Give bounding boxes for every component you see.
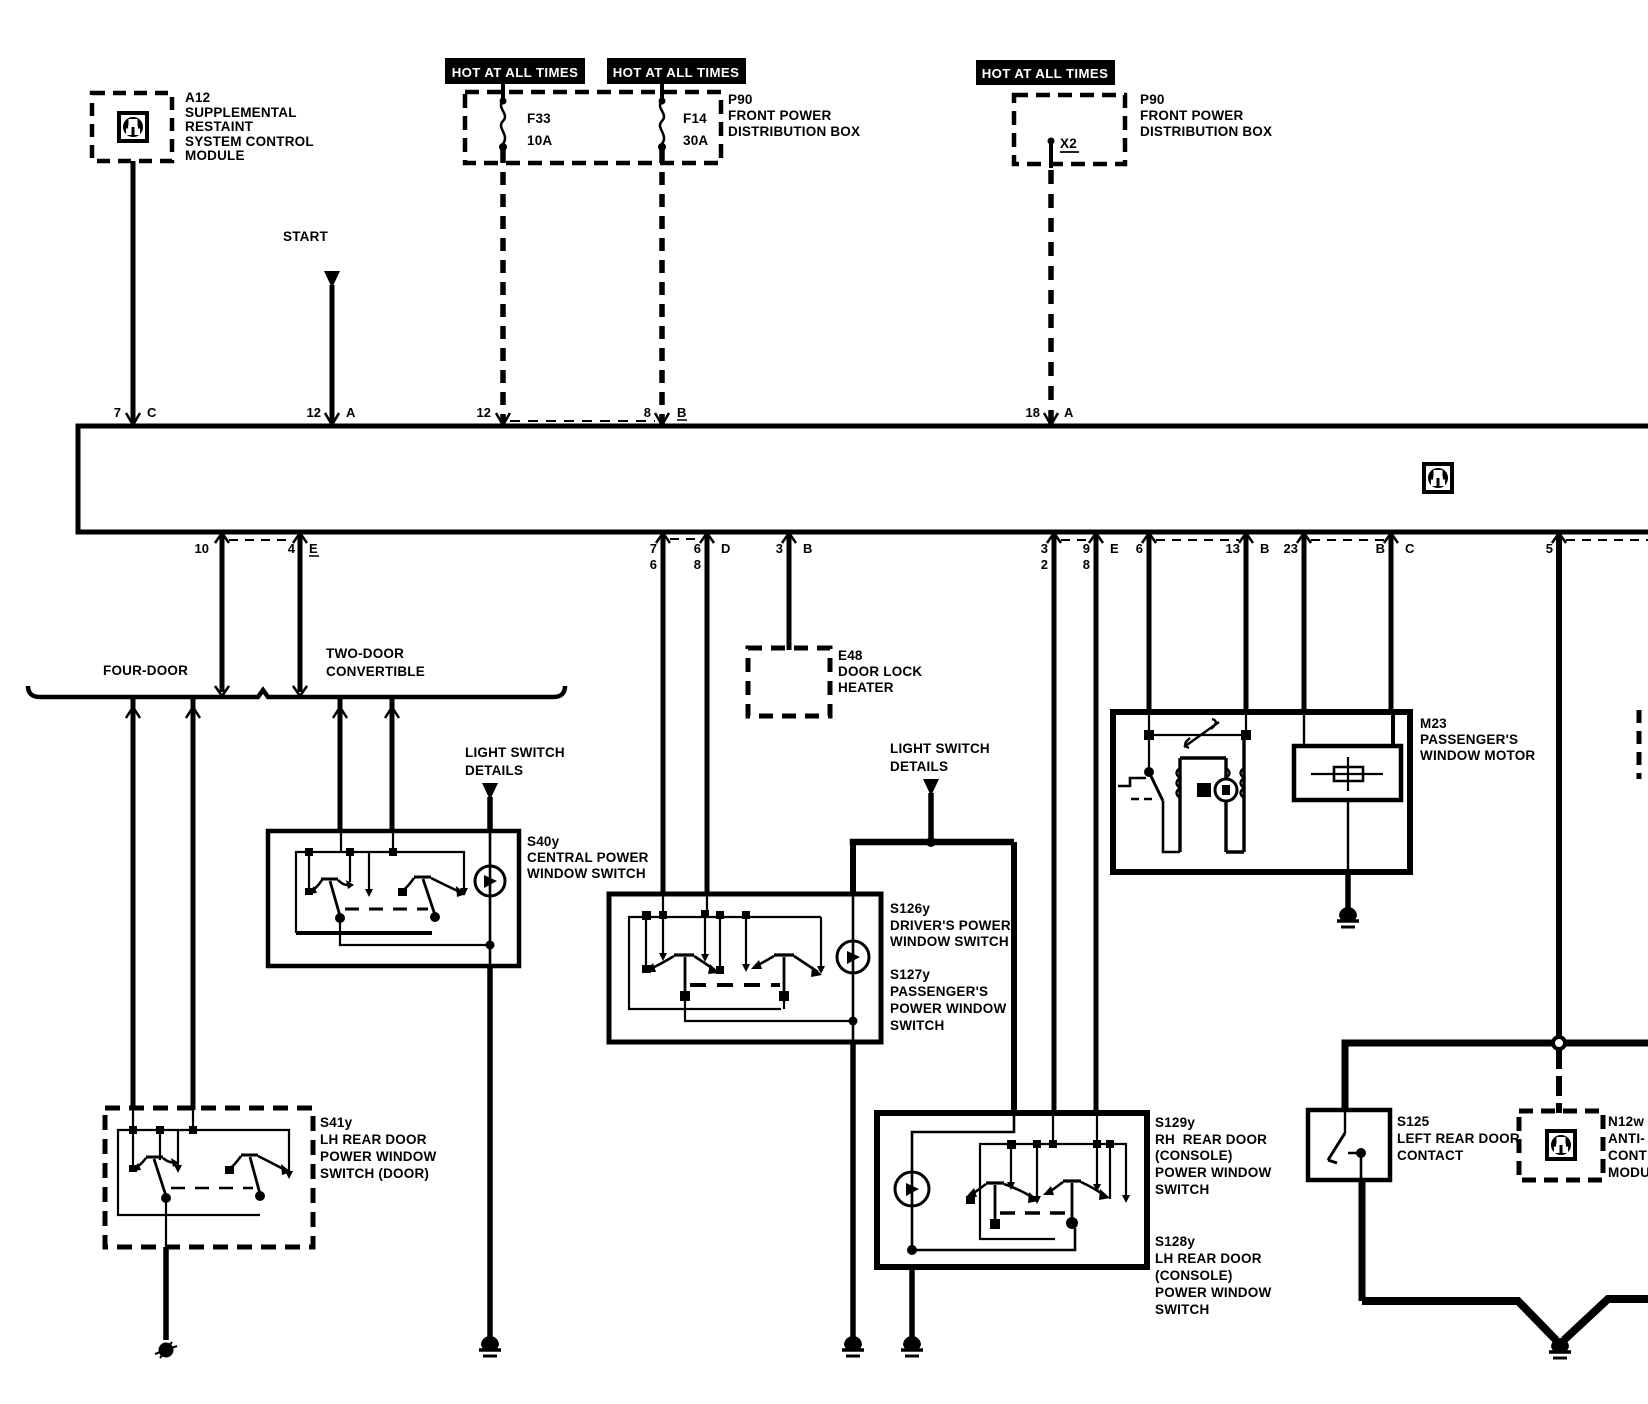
S40y junction dot bbox=[486, 941, 495, 950]
chevron pin 3/2 bbox=[1047, 533, 1061, 543]
junction dot on bar bbox=[926, 837, 936, 847]
light switch arrow middle bbox=[923, 779, 939, 796]
S40y rocker 2 arcs bbox=[402, 878, 460, 892]
wire brace to S41y right bbox=[191, 697, 196, 1110]
chevron pin 10 top bbox=[215, 533, 229, 543]
svg-text:18: 18 bbox=[1026, 405, 1040, 420]
splice run to ground right bbox=[1564, 1299, 1648, 1340]
svg-text:MODULE: MODULE bbox=[185, 148, 245, 163]
chevron bbox=[333, 707, 347, 718]
chevron pin 9/8 bbox=[1089, 533, 1103, 543]
wire light switch details to bar bbox=[928, 793, 934, 842]
svg-text:P90: P90 bbox=[728, 92, 753, 107]
A12 connector icon bbox=[119, 113, 147, 141]
wire M23 to ground bbox=[1345, 872, 1351, 908]
dashed link pins 7-6 bbox=[670, 538, 700, 540]
svg-text:F33: F33 bbox=[527, 111, 551, 126]
S41y exit stub bbox=[165, 1198, 167, 1247]
HOT AT ALL TIMES label 2 bbox=[607, 58, 746, 84]
M23 thermal breaker squiggle bbox=[1184, 719, 1219, 748]
dashed link pins 3/2-9/8 bbox=[1061, 539, 1089, 541]
wire brace to S40y right bbox=[390, 697, 395, 833]
svg-text:S129y: S129y bbox=[1155, 1115, 1195, 1130]
svg-text:ANTI-: ANTI- bbox=[1608, 1131, 1645, 1146]
svg-text:6: 6 bbox=[650, 557, 657, 572]
wire fuse F33 to bus pin 12 (dashed) bbox=[501, 84, 505, 99]
feed line to S125/N12w bbox=[1345, 1043, 1648, 1047]
fuse F14 30A bbox=[658, 98, 666, 152]
switch S40y box bbox=[268, 831, 519, 966]
S40y dashed coupler bbox=[345, 908, 428, 911]
svg-text:PASSENGER'S: PASSENGER'S bbox=[1420, 732, 1518, 747]
svg-text:POWER WINDOW: POWER WINDOW bbox=[320, 1149, 436, 1164]
S41y blade 2 dot bbox=[255, 1191, 265, 1201]
wire bus pin 10 to four-door brace bbox=[220, 532, 225, 692]
M23 field coil bumps left bbox=[1177, 768, 1181, 798]
svg-text:DISTRIBUTION BOX: DISTRIBUTION BOX bbox=[728, 124, 860, 139]
svg-text:A12: A12 bbox=[185, 90, 210, 105]
S126y lamp wire through bbox=[852, 895, 855, 1042]
wire bus pin 3 to E48 bbox=[787, 532, 792, 650]
door contact S125 box bbox=[1308, 1110, 1390, 1180]
F33 value label bbox=[527, 111, 552, 148]
S126y blade 2 to bottom bar bbox=[783, 1001, 785, 1009]
wire down to S125 bbox=[1342, 1043, 1349, 1112]
wire B label underlined bbox=[677, 405, 687, 420]
M23 top rail bbox=[1149, 712, 1246, 735]
chevron pin 13 bbox=[1239, 533, 1253, 543]
S126y label bbox=[890, 901, 1011, 949]
S129y rocker 1 arcs bbox=[971, 1184, 1034, 1199]
ground G (rear contact) bbox=[1549, 1338, 1571, 1358]
S129y inner contact frame bbox=[980, 1113, 1126, 1239]
svg-text:CONVERTIBLE: CONVERTIBLE bbox=[326, 664, 425, 679]
svg-text:LH REAR DOOR: LH REAR DOOR bbox=[320, 1132, 427, 1147]
chevron at bus entry pin 12 bbox=[325, 413, 339, 425]
S40y rocker 2 blade bbox=[423, 879, 435, 915]
chevron pin 4 top bbox=[293, 533, 307, 543]
svg-text:E: E bbox=[1110, 541, 1119, 556]
svg-text:DISTRIBUTION BOX: DISTRIBUTION BOX bbox=[1140, 124, 1272, 139]
S40y rocker 1 pivot bbox=[321, 878, 338, 881]
svg-text:CONT: CONT bbox=[1608, 1148, 1648, 1163]
svg-text:LIGHT SWITCH: LIGHT SWITCH bbox=[465, 745, 565, 760]
S40y lamp arrow bbox=[484, 875, 497, 888]
svg-text:30A: 30A bbox=[683, 133, 708, 148]
svg-text:DRIVER'S POWER: DRIVER'S POWER bbox=[890, 918, 1011, 933]
svg-text:10: 10 bbox=[195, 541, 209, 556]
svg-text:8: 8 bbox=[1083, 557, 1090, 572]
svg-text:B: B bbox=[803, 541, 812, 556]
S129y dashed coupler bbox=[1000, 1211, 1066, 1214]
pin 6/8 label bbox=[694, 541, 701, 572]
module A12 box bbox=[92, 93, 172, 161]
S126y blade 2 dot bbox=[779, 991, 789, 1001]
S126y rocker 1 arcs bbox=[650, 956, 715, 970]
N12w connector icon bbox=[1547, 1131, 1575, 1159]
splice run to ground left bbox=[1362, 1301, 1556, 1340]
wire bar to S126y lamp bbox=[850, 842, 856, 895]
M23 blade drop bbox=[1163, 801, 1180, 852]
S126y rocker 2 arcs bbox=[756, 956, 818, 972]
dashed link pins 10-4 bbox=[229, 539, 293, 541]
chevron pin 5 bbox=[1552, 533, 1566, 543]
S40y contact dots bbox=[305, 848, 397, 856]
svg-text:MODU: MODU bbox=[1608, 1165, 1648, 1180]
svg-text:HOT AT ALL TIMES: HOT AT ALL TIMES bbox=[452, 65, 579, 80]
S125 blade bbox=[1328, 1133, 1345, 1163]
P90 front power distribution box (X2) bbox=[1014, 95, 1125, 164]
wire junction to N12w bbox=[1556, 1049, 1562, 1113]
chevron pin 7/6 bbox=[656, 533, 670, 543]
wire bus pin B to M23 bbox=[1389, 532, 1394, 714]
wire E label underlined bbox=[309, 541, 319, 556]
S40y lamp wire through bbox=[489, 833, 492, 966]
svg-text:SYSTEM CONTROL: SYSTEM CONTROL bbox=[185, 134, 314, 149]
svg-text:FOUR-DOOR: FOUR-DOOR bbox=[103, 663, 188, 678]
svg-text:7: 7 bbox=[114, 405, 121, 420]
light switch arrow left bbox=[482, 783, 498, 800]
svg-text:N12w: N12w bbox=[1608, 1114, 1644, 1129]
svg-text:CENTRAL POWER: CENTRAL POWER bbox=[527, 850, 649, 865]
svg-text:POWER WINDOW: POWER WINDOW bbox=[1155, 1165, 1271, 1180]
svg-text:FRONT POWER: FRONT POWER bbox=[1140, 108, 1243, 123]
M23 switch dot bbox=[1144, 767, 1154, 777]
S129y lamp arrow bbox=[906, 1183, 919, 1196]
fuse F33 10A bbox=[499, 98, 507, 152]
svg-text:C: C bbox=[147, 405, 157, 420]
TWO-DOOR CONVERTIBLE label bbox=[326, 646, 425, 679]
four-door / two-door brace bbox=[28, 686, 565, 697]
svg-text:D: D bbox=[721, 541, 730, 556]
S40y blade 2 dot bbox=[430, 912, 440, 922]
svg-text:RH REAR DOOR: RH REAR DOOR bbox=[1155, 1132, 1267, 1147]
M23 armature mark bbox=[1222, 785, 1230, 795]
wire START to bus pin 12 bbox=[330, 285, 335, 425]
S41y blade 1 dot bbox=[161, 1193, 171, 1203]
M23 limit switch feed bbox=[1148, 735, 1150, 770]
S41y rocker 1 arcs bbox=[135, 1158, 176, 1168]
junction ring pin5/N12w bbox=[1553, 1037, 1565, 1049]
S40y bottom bar bbox=[296, 931, 432, 935]
M23 motor frame bbox=[1180, 735, 1244, 852]
ground G (four-door) bbox=[155, 1342, 177, 1358]
S126y rocker 2 pivot bbox=[774, 953, 794, 956]
S40y illumination lamp circle bbox=[475, 866, 505, 896]
S126y dashed coupler bbox=[690, 983, 780, 987]
wire bus pin 6 to M23 bbox=[1147, 532, 1152, 714]
svg-text:E: E bbox=[309, 541, 318, 556]
E48 door lock heater box (dashed) bbox=[748, 648, 830, 716]
S41y stub arrowheads bbox=[129, 1165, 293, 1179]
wire X2 to bus pin 18 (dashed) bbox=[1049, 141, 1053, 168]
module N12w box (dashed) bbox=[1519, 1111, 1603, 1180]
wire fuse F14 to bus pin 8 (dashed) bbox=[660, 84, 664, 99]
wire bus pin 5 down right side bbox=[1556, 532, 1562, 1040]
S126y junction dot bbox=[849, 1017, 858, 1026]
svg-text:A: A bbox=[1064, 405, 1074, 420]
dashed link between fuse wires above bus bbox=[510, 420, 655, 422]
svg-text:PASSENGER'S: PASSENGER'S bbox=[890, 984, 988, 999]
svg-text:LIGHT SWITCH: LIGHT SWITCH bbox=[890, 741, 990, 756]
S41y inner contact frame bbox=[118, 1108, 289, 1215]
START arrow bbox=[324, 271, 340, 288]
S129y lamp feed elbow bbox=[912, 1113, 1014, 1173]
P90 front power distribution box (fuse box) bbox=[465, 92, 721, 163]
svg-text:9: 9 bbox=[1083, 541, 1090, 556]
wire S126y to ground bbox=[850, 1042, 856, 1337]
chevron pin B bbox=[1384, 533, 1398, 543]
svg-text:12: 12 bbox=[307, 405, 321, 420]
wire bus pin 23 to M23 bbox=[1302, 532, 1307, 714]
S126y bottom link to lamp wire bbox=[685, 1001, 851, 1021]
S129y rocker 1 pivot bbox=[986, 1181, 1004, 1184]
wire S125 to splice bbox=[1359, 1180, 1366, 1301]
S40y bottom link to lamp wire bbox=[340, 918, 488, 945]
S129y junction dot bbox=[907, 1245, 917, 1255]
M23 switch step contact bbox=[1118, 778, 1146, 786]
M23 sensor element bbox=[1334, 767, 1363, 781]
svg-text:A: A bbox=[346, 405, 356, 420]
S129y illumination lamp circle bbox=[895, 1172, 929, 1206]
svg-text:WINDOW MOTOR: WINDOW MOTOR bbox=[1420, 748, 1535, 763]
svg-text:B: B bbox=[677, 405, 686, 420]
svg-text:12: 12 bbox=[477, 405, 491, 420]
svg-text:3: 3 bbox=[1041, 541, 1048, 556]
M23 sensor feed right bbox=[1391, 712, 1395, 746]
ground G (rear switch) bbox=[901, 1336, 923, 1356]
svg-text:8: 8 bbox=[644, 405, 651, 420]
svg-text:HOT AT ALL TIMES: HOT AT ALL TIMES bbox=[982, 66, 1109, 81]
svg-text:FRONT POWER: FRONT POWER bbox=[728, 108, 831, 123]
svg-text:HOT AT ALL TIMES: HOT AT ALL TIMES bbox=[613, 65, 740, 80]
svg-text:10A: 10A bbox=[527, 133, 552, 148]
chevron at bus entry 12 bbox=[496, 413, 510, 425]
svg-text:8: 8 bbox=[694, 557, 701, 572]
chevron at bus entry 8 bbox=[655, 413, 669, 425]
chevron at bus entry pin 7 bbox=[126, 413, 140, 425]
S129y rocker 2 pivot bbox=[1063, 1179, 1081, 1182]
M23 brush square bbox=[1197, 783, 1211, 797]
S129y rocker 2 arcs bbox=[1048, 1182, 1105, 1196]
LIGHT SWITCH DETAILS label left bbox=[465, 745, 565, 778]
svg-text:B: B bbox=[1376, 541, 1385, 556]
S40y rocker 1 blade bbox=[330, 881, 340, 916]
X2 terminal dot bbox=[1048, 138, 1055, 145]
svg-text:DOOR LOCK: DOOR LOCK bbox=[838, 664, 922, 679]
svg-text:S128y: S128y bbox=[1155, 1234, 1195, 1249]
svg-text:6: 6 bbox=[1136, 541, 1143, 556]
wire bus pin 3/2 to S129y bbox=[1052, 532, 1057, 1113]
wire bus pin 7/6 to S126y bbox=[661, 532, 666, 894]
wire light switch details to S40y bbox=[487, 797, 493, 833]
M23 sensor feed left bbox=[1303, 712, 1305, 746]
svg-text:(CONSOLE): (CONSOLE) bbox=[1155, 1148, 1233, 1163]
page-edge dashed stub bbox=[1637, 710, 1642, 779]
svg-text:TWO-DOOR: TWO-DOOR bbox=[326, 646, 404, 661]
wire A12 pin 7 to bus bbox=[131, 161, 136, 425]
S40y inner contact frame bbox=[296, 831, 464, 933]
switch S41y box (dashed) bbox=[105, 1108, 313, 1247]
M23 switch blade bbox=[1149, 772, 1163, 801]
svg-text:M23: M23 bbox=[1420, 716, 1447, 731]
wire bar to S129y bbox=[1011, 842, 1017, 1113]
pin 7/6 label bbox=[650, 541, 657, 572]
M23 field coil bumps mid bbox=[1226, 768, 1230, 798]
svg-text:POWER WINDOW: POWER WINDOW bbox=[890, 1001, 1006, 1016]
chevron bbox=[385, 707, 399, 718]
dashed link pins 6-13 bbox=[1156, 539, 1239, 541]
M23 switch dashed tick bbox=[1131, 798, 1152, 800]
S40y rocker 1 arcs bbox=[311, 880, 350, 891]
S40y rocker 2 pivot bbox=[414, 876, 431, 879]
svg-text:LH REAR DOOR: LH REAR DOOR bbox=[1155, 1251, 1262, 1266]
main bus bar (wiring harness) bbox=[78, 426, 1648, 532]
F14 value label bbox=[683, 111, 708, 148]
S129y contact dots bbox=[1007, 1140, 1114, 1149]
S41y rocker 1 pivot bbox=[146, 1156, 163, 1159]
HOT AT ALL TIMES label 1 bbox=[445, 58, 585, 84]
svg-text:S127y: S127y bbox=[890, 967, 930, 982]
svg-text:P90: P90 bbox=[1140, 92, 1165, 107]
svg-text:SWITCH: SWITCH bbox=[1155, 1182, 1209, 1197]
svg-text:S125: S125 bbox=[1397, 1114, 1430, 1129]
S125 contact ledge bbox=[1348, 1153, 1361, 1180]
chevron pin 6 bbox=[1142, 533, 1156, 543]
chevron pin 6/8 bbox=[700, 533, 714, 543]
S129y rocker 1 blade bbox=[994, 1185, 997, 1222]
wire brace to S40y left bbox=[338, 697, 343, 833]
M23 field coil bumps right bbox=[1241, 768, 1245, 798]
S129y label bbox=[1155, 1115, 1271, 1197]
S41y rocker 2 pivot bbox=[241, 1154, 258, 1157]
svg-text:WINDOW SWITCH: WINDOW SWITCH bbox=[890, 934, 1009, 949]
wire bus pin 6/8 to S126y bbox=[705, 532, 710, 894]
S126y rocker 1 pivot bbox=[674, 953, 694, 956]
svg-text:RESTAINT: RESTAINT bbox=[185, 119, 254, 134]
S126y stub arrowheads bbox=[642, 953, 825, 974]
S41y rocker 2 blade bbox=[250, 1157, 260, 1194]
chevron bbox=[126, 707, 140, 718]
svg-text:13: 13 bbox=[1226, 541, 1240, 556]
M23 rail dots bbox=[1144, 730, 1251, 740]
pin 3/2 label bbox=[1041, 541, 1048, 572]
S41y label bbox=[320, 1115, 436, 1181]
svg-text:2: 2 bbox=[1041, 557, 1048, 572]
A12 label bbox=[185, 90, 314, 163]
S40y label bbox=[527, 834, 649, 881]
svg-text:SWITCH (DOOR): SWITCH (DOOR) bbox=[320, 1166, 429, 1181]
svg-text:E48: E48 bbox=[838, 648, 863, 663]
S127y label bbox=[890, 967, 1006, 1033]
svg-text:(CONSOLE): (CONSOLE) bbox=[1155, 1268, 1233, 1283]
chevron bbox=[186, 707, 200, 718]
wire brace to S41y left bbox=[131, 697, 136, 1110]
wire S40y to ground bbox=[487, 966, 493, 1337]
switch S129y/S128y box bbox=[877, 1113, 1147, 1267]
svg-text:DETAILS: DETAILS bbox=[465, 763, 523, 778]
svg-text:POWER WINDOW: POWER WINDOW bbox=[1155, 1285, 1271, 1300]
S129y stub arrowheads bbox=[966, 1182, 1130, 1204]
bus connector icon bbox=[1424, 464, 1452, 492]
svg-text:7: 7 bbox=[650, 541, 657, 556]
S128y label bbox=[1155, 1234, 1271, 1317]
chevron pin 10 bottom bbox=[215, 686, 229, 696]
S125 contact stem bbox=[1344, 1110, 1346, 1133]
svg-text:C: C bbox=[1405, 541, 1415, 556]
S129y rocker 2 blade bbox=[1071, 1183, 1074, 1220]
chevron pin 3 bbox=[782, 533, 796, 543]
svg-text:B: B bbox=[1260, 541, 1269, 556]
wire bus pin 13 to M23 bbox=[1244, 532, 1249, 714]
E48 label bbox=[838, 648, 922, 695]
ground G (driver switch) bbox=[842, 1336, 864, 1356]
S126y rocker 1 blade bbox=[684, 957, 687, 994]
S125 contact dot bbox=[1356, 1148, 1366, 1158]
ground G (two-door) bbox=[479, 1336, 501, 1356]
svg-text:SWITCH: SWITCH bbox=[890, 1018, 944, 1033]
svg-text:DETAILS: DETAILS bbox=[890, 759, 948, 774]
S40y stub arrowheads bbox=[305, 888, 468, 897]
chevron pin 4 bottom bbox=[293, 686, 307, 696]
M23 position sensor box bbox=[1294, 746, 1401, 800]
P90 label 1 bbox=[728, 92, 860, 139]
svg-text:F14: F14 bbox=[683, 111, 707, 126]
motor M23 box bbox=[1113, 712, 1410, 872]
chevron at bus entry 18 bbox=[1044, 413, 1058, 425]
S125 label bbox=[1397, 1114, 1520, 1163]
dashed link pins 23-B bbox=[1311, 539, 1384, 541]
svg-text:5: 5 bbox=[1546, 541, 1553, 556]
dashed link pin 5 to edge bbox=[1566, 539, 1648, 541]
S126y contact dots bbox=[642, 910, 750, 920]
svg-text:4: 4 bbox=[288, 541, 296, 556]
S41y rocker 1 blade bbox=[154, 1159, 166, 1196]
S126y lamp arrow bbox=[847, 951, 860, 964]
svg-text:S126y: S126y bbox=[890, 901, 930, 916]
pin 9/8 label bbox=[1083, 541, 1090, 572]
ground G (motor) bbox=[1337, 907, 1359, 927]
chevron pin 23 bbox=[1297, 533, 1311, 543]
svg-text:HEATER: HEATER bbox=[838, 680, 894, 695]
wire bus pin 9/8 to S129y bbox=[1094, 532, 1099, 1113]
svg-text:6: 6 bbox=[694, 541, 701, 556]
X2 label underlined bbox=[1060, 136, 1079, 152]
svg-text:START: START bbox=[283, 229, 329, 244]
S126y inner contact frame bbox=[629, 894, 821, 1009]
svg-text:CONTACT: CONTACT bbox=[1397, 1148, 1464, 1163]
M23 label bbox=[1420, 716, 1535, 763]
svg-text:SUPPLEMENTAL: SUPPLEMENTAL bbox=[185, 105, 297, 120]
S41y rocker 2 arcs bbox=[229, 1156, 285, 1170]
svg-text:SWITCH: SWITCH bbox=[1155, 1302, 1209, 1317]
svg-text:S41y: S41y bbox=[320, 1115, 353, 1130]
S129y bottom link bbox=[912, 1228, 1075, 1250]
M23 sensor output wire bbox=[1347, 800, 1349, 872]
svg-text:23: 23 bbox=[1284, 541, 1298, 556]
S129y lamp wire through bbox=[911, 1173, 914, 1250]
S129y blade 1 dot bbox=[990, 1219, 1000, 1229]
wire S41y to ground bbox=[163, 1247, 169, 1340]
svg-text:3: 3 bbox=[776, 541, 783, 556]
S126y rocker 2 blade bbox=[783, 957, 786, 994]
S126y blade 1 dot bbox=[680, 991, 690, 1001]
svg-text:WINDOW SWITCH: WINDOW SWITCH bbox=[527, 866, 646, 881]
switch S126y/S127y box bbox=[609, 894, 881, 1042]
S126y illumination lamp circle bbox=[837, 941, 869, 973]
S41y dashed coupler bbox=[171, 1187, 253, 1189]
svg-text:X2: X2 bbox=[1060, 136, 1077, 151]
